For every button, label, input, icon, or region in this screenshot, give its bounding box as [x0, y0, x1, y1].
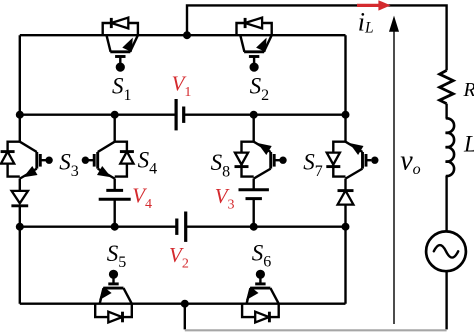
wire: AC source to bottom — [445, 271, 447, 329]
switch S1 (IGBT with antiparallel diode) — [103, 23, 138, 35]
wire: S4 leg top — [113, 115, 115, 142]
junction dot rail3 at V3 — [250, 223, 258, 231]
wire: L to AC source — [445, 176, 447, 231]
junction dot rail3 at V4 — [111, 223, 119, 231]
wire: S8 to capacitor V3 — [252, 179, 254, 191]
wire: diode to rail 3 — [344, 205, 346, 227]
svg-text:S5: S5 — [107, 241, 127, 271]
svg-text:S3: S3 — [59, 150, 78, 180]
wire: V4 to rail 3 — [113, 199, 115, 227]
wire: left rail segment rail2 to S3 — [19, 115, 21, 142]
series diode below S7 (conducts up) — [338, 189, 354, 192]
switch S4 (vertical IGBT, gate left, diode right) — [115, 142, 127, 177]
wire: V3 to rail 3 — [252, 199, 254, 227]
inductor L — [446, 118, 455, 176]
wire: S2 right bend down to rail 2 — [344, 35, 346, 115]
svg-text:V2: V2 — [169, 243, 189, 271]
junction dot rail3 left — [16, 223, 24, 231]
wire: S3 emitter to series diode — [19, 179, 21, 192]
svg-text:S1: S1 — [112, 74, 132, 104]
arrow v_o (output voltage, pointing up) — [393, 29, 395, 324]
wire: bottom output drop — [184, 304, 186, 330]
wire: rail 2 right segment — [184, 113, 346, 115]
svg-text:S6: S6 — [252, 240, 272, 270]
svg-text:S7: S7 — [303, 150, 323, 180]
wire: rail 3 right segment — [186, 225, 346, 227]
wire: top output line from node a to load — [187, 5, 447, 70]
svg-text:vo: vo — [400, 145, 420, 178]
wire: left rail top segment — [19, 35, 21, 115]
switch S5 (IGBT with antiparallel diode) — [95, 304, 132, 317]
svg-text:R: R — [463, 79, 474, 101]
wire: rail 2 left segment — [20, 113, 176, 115]
switch S7 (vertical IGBT, gate right, diode left, emitter up) — [333, 142, 345, 177]
svg-text:V3: V3 — [215, 184, 235, 212]
wire: R to L — [445, 104, 447, 119]
wire: S8 leg top — [252, 115, 254, 142]
switch S8 (vertical IGBT, gate right, diode left, emitter up) — [242, 142, 254, 177]
junction dot rail2 at S4 leg — [111, 111, 119, 119]
svg-text:S2: S2 — [250, 74, 270, 104]
wire: S7 leg bottom segment — [344, 227, 346, 304]
series diode below S3 (conducts down) — [12, 191, 28, 203]
junction dot rail3 right — [342, 223, 350, 231]
svg-text:V4: V4 — [132, 184, 152, 212]
svg-text:V1: V1 — [172, 72, 192, 100]
wire: bottom row horizontal wire S5-S6 — [20, 303, 346, 305]
capacitor V2 plates — [175, 219, 178, 235]
capacitor V4 plates — [106, 189, 123, 192]
junction dot rail2 at S8 leg — [250, 111, 258, 119]
wire: left rail bottom segment — [19, 227, 21, 304]
switch S2 (IGBT with antiparallel diode) — [237, 23, 272, 35]
svg-text:iL: iL — [358, 7, 374, 36]
wire: S7 leg top — [344, 115, 346, 142]
junction dot rail2 left — [16, 111, 24, 119]
resistor R — [440, 70, 454, 103]
wire: row-1 horizontal wire S1-S2 — [20, 34, 346, 36]
wire: rail 3 left segment — [20, 225, 177, 227]
node b junction dot (bottom output) — [181, 300, 189, 308]
svg-text:S8: S8 — [211, 150, 231, 180]
capacitor V3 plates — [239, 188, 269, 191]
wire: S4 emitter to capacitor V4 — [113, 179, 115, 191]
svg-text:S4: S4 — [138, 147, 158, 177]
wire: grey bottom return line — [185, 329, 447, 331]
AC source sine wave — [434, 245, 458, 257]
wire: S7 to series diode — [344, 179, 346, 192]
switch S6 (IGBT with antiparallel diode) — [242, 304, 279, 317]
arrow i_L (red) on top wire — [357, 4, 379, 7]
wire: diode to rail 3 — [19, 206, 21, 227]
junction dot rail2 right — [342, 111, 350, 119]
node a junction dot (S1-S2 midpoint) — [183, 31, 191, 39]
AC source circle — [426, 231, 466, 271]
switch S3 (vertical IGBT, gate right, diode left) — [8, 142, 20, 177]
capacitor V1 plates — [175, 99, 178, 130]
svg-text:L: L — [463, 132, 474, 157]
